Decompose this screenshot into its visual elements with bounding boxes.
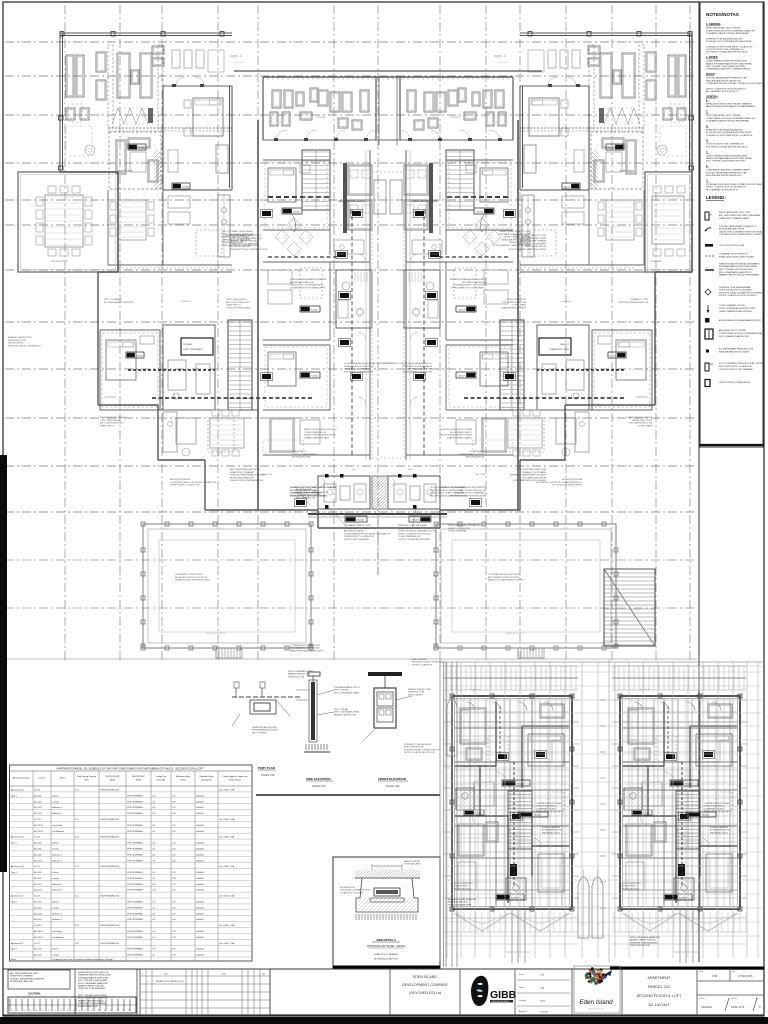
svg-text:Kitchen: Kitchen: [52, 794, 59, 797]
svg-text:SITE PRIOR TO INSTALLATION: SITE PRIOR TO INSTALLATION: [344, 370, 374, 373]
svg-text:SIDE DETAIL 2: SIDE DETAIL 2: [376, 938, 396, 942]
svg-text:date: date: [164, 973, 168, 976]
svg-text:POINT ALL REFRIGERANT PIPEWORK: POINT ALL REFRIGERANT PIPEWORK TO BE: [706, 77, 747, 80]
svg-text:PKFY-P32NHM-E: PKFY-P32NHM-E: [127, 795, 143, 797]
svg-text:Lounge: Lounge: [52, 907, 60, 909]
svg-text:app: app: [262, 974, 265, 976]
svg-text:PIPE TO NEAREST: PIPE TO NEAREST: [104, 298, 123, 301]
svg-text:REFRIGERANT PIPEWORK TO BE: REFRIGERANT PIPEWORK TO BE: [344, 527, 377, 530]
svg-text:AC-26/2: AC-26/2: [34, 906, 42, 909]
svg-text:AIR CONDITIONING UNIT WITH: AIR CONDITIONING UNIT WITH: [230, 468, 260, 471]
left black scan bar: [0, 455, 7, 872]
eden island logo box: [574, 966, 620, 1013]
svg-text:SPLIT TYPE AIR: SPLIT TYPE AIR: [334, 689, 349, 692]
svg-text:Apartment D4: Apartment D4: [11, 895, 24, 898]
svg-text:DRAIN PIPE TO: DRAIN PIPE TO: [292, 450, 307, 453]
svg-text:600x600: 600x600: [196, 937, 205, 939]
svg-text:CD.26: CD.26: [34, 896, 41, 898]
svg-text:BE INSULATED AND RUN IN: BE INSULATED AND RUN IN: [719, 228, 745, 231]
center grid dash vertical tail: [377, 520, 379, 575]
cypress arch shapes: [447, 692, 603, 938]
svg-text:DRAIN PIPE TO NEAREST: DRAIN PIPE TO NEAREST: [230, 471, 255, 474]
svg-text:OUTDOOR UNIT: OUTDOOR UNIT: [105, 776, 120, 778]
svg-text:PROVIDE ACCESS PANELS: PROVIDE ACCESS PANELS: [625, 416, 652, 419]
svg-text:Loft Family: Loft Family: [52, 930, 62, 933]
svg-text:PIPEWORK TO BE INSULATED AND: PIPEWORK TO BE INSULATED AND: [719, 286, 751, 289]
svg-text:600x600: 600x600: [196, 813, 205, 815]
svg-text:SCALE 1:50: SCALE 1:50: [261, 774, 275, 777]
svg-text:DRAIN PIPE TO: DRAIN PIPE TO: [637, 424, 652, 427]
svg-text:Bedroom 1: Bedroom 1: [52, 884, 63, 886]
svg-text:PKFY-P32NHM-E: PKFY-P32NHM-E: [127, 902, 143, 904]
svg-text:1ph / 400V / 13A: 1ph / 400V / 13A: [219, 865, 235, 868]
svg-text:SUPPLY LOCATION OF OUTDOOR: SUPPLY LOCATION OF OUTDOOR: [439, 428, 472, 431]
svg-text:INSULATED AND RUN: INSULATED AND RUN: [448, 901, 468, 904]
svg-text:SUPPLY AND INSTALL: SUPPLY AND INSTALL: [630, 419, 652, 422]
svg-text:WITH ELECTRICAL CONTRACTOR FOR: WITH ELECTRICAL CONTRACTOR FOR: [398, 530, 436, 533]
svg-text:BE INSULATED AND RUN: BE INSULATED AND RUN: [374, 958, 398, 961]
svg-text:SPLIT TYPE AIR CONDITIONING UN: SPLIT TYPE AIR CONDITIONING UNIT WITH: [706, 160, 746, 163]
svg-text:VIBRATION PADS PROVIDE: VIBRATION PADS PROVIDE: [252, 726, 277, 729]
svg-text:Kitchen: Kitchen: [52, 871, 59, 874]
svg-text:ON SITE PRIOR: ON SITE PRIOR: [622, 886, 637, 888]
svg-text:J31146A: J31146A: [701, 1005, 712, 1009]
notes panel divider: [698, 2, 700, 962]
svg-text:WITH CONDENSATE DRAIN PIPE: WITH CONDENSATE DRAIN PIPE: [230, 237, 262, 240]
svg-text:SITE PRIOR TO INSTALLATION MOU: SITE PRIOR TO INSTALLATION MOUNT UNITS: [706, 51, 748, 54]
svg-text:Condensing units to be air coo: Condensing units to be air cooled for am…: [52, 958, 115, 961]
svg-text:OUTDOOR UNITS TO BE CONFIRMED: OUTDOOR UNITS TO BE CONFIRMED: [430, 487, 466, 489]
svg-text:AC-25/3: AC-25/3: [34, 883, 42, 886]
svg-text:NEAREST WASTE POINT ALL: NEAREST WASTE POINT ALL: [517, 240, 546, 243]
svg-text:+0.35 level: +0.35 level: [560, 301, 571, 303]
leader diagonals: [300, 492, 416, 528]
svg-text:Eden Island: Eden Island: [579, 999, 613, 1006]
svg-text:600x600: 600x600: [196, 831, 205, 833]
svg-text:XX-000: XX-000: [517, 784, 525, 786]
details divider line: [256, 794, 440, 796]
table data rows: [10, 788, 253, 957]
left wing half (mirrored for right): [59, 32, 260, 487]
svg-text:AC-24/2: AC-24/2: [34, 847, 42, 850]
svg-text:Power Supply to Outdoor unit: Power Supply to Outdoor unit: [223, 775, 248, 778]
svg-text:OUTDOOR UNIT BASE - DETAIL: OUTDOOR UNIT BASE - DETAIL: [367, 944, 406, 948]
svg-text:XX-000: XX-000: [679, 898, 687, 900]
svg-text:2. NOTES:: 2. NOTES:: [706, 56, 718, 59]
svg-text:AC-25/2: AC-25/2: [34, 877, 42, 880]
table header row: [10, 785, 253, 787]
svg-text:CONTRACTOR FOR POWER SUPPLY LO: CONTRACTOR FOR POWER SUPPLY LOCATION OF: [706, 134, 753, 137]
svg-text:POWER SUPPLY LOCATION OF: POWER SUPPLY LOCATION OF: [344, 535, 375, 538]
svg-text:Lounge: Lounge: [52, 955, 60, 957]
svg-text:AIR CONDITIONING UNIT: AIR CONDITIONING UNIT: [100, 422, 125, 425]
svg-text:PUMY-P.NDMU48.45: PUMY-P.NDMU48.45: [100, 943, 120, 945]
svg-text:Bedroom 1: Bedroom 1: [52, 913, 63, 915]
svg-text:1ph / 400V / 13A: 1ph / 400V / 13A: [219, 942, 235, 945]
svg-text:ON ANTI VIBRATION: ON ANTI VIBRATION: [710, 826, 729, 829]
svg-text:Bedroom 2: Bedroom 2: [52, 890, 63, 892]
center corridor vertical dashed: [372, 172, 404, 458]
svg-text:CONTRACTOR FOR POWER: CONTRACTOR FOR POWER: [704, 802, 730, 805]
svg-text:WITH ELECTRICAL CONTRACTOR: WITH ELECTRICAL CONTRACTOR: [448, 524, 481, 527]
svg-text:POWER SUPPLY LOCATION OF: POWER SUPPLY LOCATION OF: [170, 484, 201, 487]
svg-text:BE INSULATED AND RUN: BE INSULATED AND RUN: [462, 281, 486, 284]
svg-text:BE INSULATED AND RUN: BE INSULATED AND RUN: [290, 281, 314, 284]
svg-text:AC-23/3: AC-23/3: [34, 806, 42, 809]
svg-text:AND RUN IN CEILING: AND RUN IN CEILING: [344, 530, 365, 533]
svg-text:INDOOR UNIT: INDOOR UNIT: [132, 776, 145, 778]
svg-text:FOR POWER SUPPLY LOCATION OF: FOR POWER SUPPLY LOCATION OF: [719, 365, 753, 368]
svg-text:POINT ALL REFRIGERANT PIPEWORK: POINT ALL REFRIGERANT PIPEWORK: [509, 474, 546, 477]
svg-text:CONFIRMED ON SITE PRIOR: CONFIRMED ON SITE PRIOR: [175, 574, 203, 576]
svg-text:600x600: 600x600: [196, 919, 205, 921]
svg-text:XX-000: XX-000: [606, 148, 614, 150]
svg-text:Model: Model: [110, 780, 116, 782]
porch center wall hatch: [372, 476, 388, 509]
svg-text:POWER SUPPLY LOCATION OF: POWER SUPPLY LOCATION OF: [344, 365, 375, 368]
svg-text:XX-000: XX-000: [411, 520, 419, 522]
svg-text:XX-000: XX-000: [293, 212, 301, 214]
table column lines: [33, 771, 218, 961]
svg-text:verandah: verandah: [650, 259, 662, 263]
svg-text:GENERAL:: GENERAL:: [706, 95, 719, 98]
svg-text:600x600: 600x600: [196, 890, 205, 892]
svg-text:600x600: 600x600: [196, 848, 205, 850]
svg-text:COORDINATE WITH ELECTRICAL CON: COORDINATE WITH ELECTRICAL CONTRACTOR: [385, 362, 432, 365]
svg-text:SITE PRIOR TO INSTALLATION: SITE PRIOR TO INSTALLATION: [402, 370, 432, 373]
svg-text:MOUNT UNITS ON: MOUNT UNITS ON: [454, 888, 471, 890]
svg-text:CONSULTING ENGINEERS: CONSULTING ENGINEERS: [491, 1001, 509, 1003]
svg-text:DRAIN PIPE TO: DRAIN PIPE TO: [469, 450, 484, 453]
svg-text:VIBRATION PADS PROVIDE ACCESS: VIBRATION PADS PROVIDE ACCESS: [78, 974, 112, 977]
svg-text:PART PLAN: PART PLAN: [258, 766, 275, 770]
svg-text:OUTDOOR UNITS TO: OUTDOOR UNITS TO: [622, 883, 641, 885]
svg-text:SPLIT TYPE AIR CONDITIONING: SPLIT TYPE AIR CONDITIONING: [78, 979, 107, 982]
svg-text:PADS PROVIDE ACCESS PANELS FOR: PADS PROVIDE ACCESS PANELS FOR MAINTENAN…: [706, 105, 756, 108]
svg-text:ON SITE PRIOR TO INSTALLATION: ON SITE PRIOR TO INSTALLATION: [719, 381, 750, 384]
svg-text:UNITS TO BE CONFIRMED: UNITS TO BE CONFIRMED: [344, 539, 370, 541]
svg-text:WITH CONDENSATE DRAIN PIPE TO: WITH CONDENSATE DRAIN PIPE TO: [719, 271, 752, 274]
svg-text:CD.23: CD.23: [34, 789, 41, 791]
svg-text:Type 4: Type 4: [11, 949, 18, 951]
svg-text:NEAREST WASTE POINT ALL: NEAREST WASTE POINT ALL: [630, 939, 656, 942]
svg-text:600x600: 600x600: [196, 913, 205, 915]
svg-text:FOR MAINTENANCE SUPPLY AND: FOR MAINTENANCE SUPPLY AND: [78, 976, 109, 979]
svg-text:CEILING VOID COORDINATE WITH E: CEILING VOID COORDINATE WITH ELECTRICAL: [719, 230, 762, 233]
svg-text:PKFY-P32NHM-E: PKFY-P32NHM-E: [127, 843, 143, 845]
svg-text:apartment: apartment: [620, 169, 634, 173]
svg-text:POINT ALL REFRIGERANT PIPEWORK: POINT ALL REFRIGERANT PIPEWORK: [10, 977, 45, 980]
svg-text:Type 4: Type 4: [11, 795, 18, 797]
svg-text:AC-23.1/1: AC-23.1/1: [34, 824, 44, 827]
svg-text:PKFY-P32NHM-E: PKFY-P32NHM-E: [127, 854, 143, 856]
svg-text:PIPEWORK TO BE: PIPEWORK TO BE: [288, 676, 305, 678]
svg-text:AC-24/4: AC-24/4: [34, 859, 42, 862]
svg-text:SCALE 1:50: SCALE 1:50: [312, 785, 326, 788]
svg-text:JOB No.: JOB No.: [699, 998, 706, 1000]
svg-text:SUPPLY AND INSTALL: SUPPLY AND INSTALL: [226, 298, 248, 301]
svg-text:COORDINATE WITH ELECTRICAL CON: COORDINATE WITH ELECTRICAL CONTRACTOR FO…: [706, 183, 763, 186]
svg-text:RUN IN CEILING: RUN IN CEILING: [412, 659, 427, 661]
svg-text:rv: rv: [142, 974, 144, 976]
svg-text:1:50: 1:50: [712, 974, 718, 978]
svg-text:BE INSULATED AND RUN: BE INSULATED AND RUN: [10, 980, 33, 983]
svg-text:PIPEWORK TO BE: PIPEWORK TO BE: [8, 340, 26, 342]
svg-text:AND RUN IN CEILING: AND RUN IN CEILING: [561, 478, 582, 481]
svg-text:Cooling Cap.: Cooling Cap.: [156, 776, 167, 778]
svg-text:SPLIT TYPE AIR CONDITIONING: SPLIT TYPE AIR CONDITIONING: [515, 234, 546, 237]
svg-text:MOUNT UNITS ON: MOUNT UNITS ON: [622, 888, 639, 890]
svg-text:ON SITE PRIOR: ON SITE PRIOR: [454, 886, 469, 888]
svg-text:NEAREST WASTE POINT ALL: NEAREST WASTE POINT ALL: [78, 985, 104, 988]
svg-text:XX-000: XX-000: [311, 310, 319, 312]
svg-text:XX-000: XX-000: [138, 148, 146, 150]
svg-text:AC-26/4: AC-26/4: [34, 918, 42, 921]
svg-text:Loft Bedroom: Loft Bedroom: [52, 936, 64, 939]
svg-text:PRIOR TO INSTALLATION MOUNT: PRIOR TO INSTALLATION MOUNT: [398, 538, 431, 541]
svg-text:POINT ALL REFRIGERANT PIPEWORK: POINT ALL REFRIGERANT PIPEWORK TO: [719, 225, 757, 228]
right terrace steps notch: [518, 648, 544, 658]
svg-text:COORDINATE WITH ELECTRICAL CON: COORDINATE WITH ELECTRICAL CONTRACTOR: [170, 481, 217, 484]
bottom black scan bar: [0, 1017, 768, 1024]
loft A right vertical dim ticks: [600, 700, 606, 908]
svg-text:DEVELOPMENT COMPANY: DEVELOPMENT COMPANY: [402, 983, 449, 987]
svg-text:APARTMENTS PARCEL 231: SCHEDUL: APARTMENTS PARCEL 231: SCHEDULE OF SPLIT…: [57, 768, 204, 771]
svg-text:600x600: 600x600: [196, 931, 205, 933]
svg-text:w a t e r f a l l: w a t e r f a l l: [506, 631, 524, 635]
svg-text:PKFY-P32NHM-E: PKFY-P32NHM-E: [127, 825, 143, 827]
svg-text:PRIOR TO INSTALLATION MOUNT: PRIOR TO INSTALLATION MOUNT: [304, 434, 337, 437]
svg-text:Loft Family: Loft Family: [52, 824, 62, 827]
svg-text:CD.24: CD.24: [34, 837, 41, 839]
svg-text:+0.35 bdrm: +0.35 bdrm: [636, 396, 648, 399]
svg-text:PIPE TO NEAREST: PIPE TO NEAREST: [629, 298, 648, 301]
svg-text:CONFIRMED ON SITE PRIOR TO: CONFIRMED ON SITE PRIOR TO: [290, 493, 321, 495]
svg-text:RUN IN CEILING: RUN IN CEILING: [8, 343, 24, 345]
svg-text:TO NEAREST WASTE POINT ALL REF: TO NEAREST WASTE POINT ALL REFRIGERANT: [706, 32, 750, 35]
svg-text:SITE PRIOR TO INSTALLATION MOU: SITE PRIOR TO INSTALLATION MOUNT UNITS: [706, 145, 748, 148]
svg-text:BE INSULATED AND RUN: BE INSULATED AND RUN: [230, 476, 254, 479]
svg-text:ACCESS PANELS FOR: ACCESS PANELS FOR: [710, 829, 731, 832]
svg-text:PIPEWORK TO BE: PIPEWORK TO BE: [408, 692, 425, 694]
svg-text:OF OUTDOOR UNITS TO BE: OF OUTDOOR UNITS TO BE: [459, 490, 486, 492]
svg-text:INSTALLATION MOUNT UNITS ON AN: INSTALLATION MOUNT UNITS ON ANTI: [290, 494, 327, 497]
svg-text:SUPPLY LOCATION OF OUTDOOR: SUPPLY LOCATION OF OUTDOOR: [304, 428, 337, 431]
svg-text:XX-000: XX-000: [311, 376, 319, 378]
svg-text:1ph / 400V / 13A: 1ph / 400V / 13A: [219, 924, 235, 927]
svg-text:Type 5: Type 5: [11, 843, 18, 845]
svg-text:CAUTION:: CAUTION:: [28, 992, 41, 996]
svg-text:(MAIN CANAPE LEVEL): (MAIN CANAPE LEVEL): [338, 200, 366, 203]
svg-text:600x600: 600x600: [196, 825, 205, 827]
svg-text:XX-000: XX-000: [608, 356, 616, 358]
svg-text:FRONT ELEVATION: FRONT ELEVATION: [378, 777, 406, 781]
right dining protrusion: [645, 172, 692, 272]
svg-text:PKFY-P25NHM-E: PKFY-P25NHM-E: [127, 890, 143, 892]
svg-text:PRIOR TO INSTALLATION MOUNT: PRIOR TO INSTALLATION MOUNT: [439, 434, 472, 437]
svg-text:SUPPLY AND INSTALL SPLIT TYPE: SUPPLY AND INSTALL SPLIT TYPE AIR: [706, 27, 741, 30]
svg-text:DRAIN PIPE TO NEAREST: DRAIN PIPE TO NEAREST: [10, 975, 34, 978]
svg-text:WITH ELECTRICAL CONTRACTOR FOR: WITH ELECTRICAL CONTRACTOR FOR: [230, 248, 268, 251]
svg-text:Apartment D5: Apartment D5: [11, 942, 24, 945]
svg-text:XX-000: XX-000: [136, 356, 144, 358]
svg-text:Apartment Number: Apartment Number: [13, 777, 30, 780]
svg-text:PKFY-P40NHM-E: PKFY-P40NHM-E: [127, 801, 143, 803]
svg-text:CONDITIONING UNIT WITH CONDENS: CONDITIONING UNIT WITH CONDENSATE DRAIN: [719, 332, 764, 335]
svg-text:CONTRACTOR FOR POWER SUPPLY LO: CONTRACTOR FOR POWER SUPPLY LOCATION: [290, 486, 336, 489]
svg-text:TYPE AIR: TYPE AIR: [183, 343, 193, 346]
loft grid verticals: [444, 662, 759, 967]
legend items: [705, 212, 714, 387]
svg-text:PUMY-P.NDMU48.45: PUMY-P.NDMU48.45: [100, 789, 120, 791]
apartment title text: [637, 976, 682, 1007]
svg-text:POWER SUPPLY LOCATION OF: POWER SUPPLY LOCATION OF: [551, 484, 582, 487]
svg-text:Drawn: Drawn: [519, 987, 524, 989]
svg-text:AC-25/4: AC-25/4: [34, 889, 42, 892]
svg-text:WITH CONDENSATE DRAIN PIPE: WITH CONDENSATE DRAIN PIPE: [630, 936, 660, 939]
svg-text:CJH: CJH: [540, 988, 545, 990]
svg-text:600x600: 600x600: [196, 795, 205, 797]
svg-text:AIR CONDITIONING UNIT: AIR CONDITIONING UNIT: [226, 301, 251, 304]
svg-text:OF OUTDOOR UNITS: OF OUTDOOR UNITS: [704, 806, 724, 808]
svg-text:RUN IN CEILING VOID: RUN IN CEILING VOID: [78, 1006, 98, 1008]
svg-text:Model: Model: [136, 780, 142, 782]
svg-text:CONDITIONING UNIT WITH CONDENS: CONDITIONING UNIT WITH CONDENSATE DRAIN …: [706, 29, 756, 32]
title block bottom border: [3, 1014, 764, 1016]
svg-text:WITH CONDENSATE DRAIN: WITH CONDENSATE DRAIN: [288, 670, 313, 673]
svg-text:XX-000: XX-000: [511, 898, 519, 900]
svg-text:Total Cooling Capacity: Total Cooling Capacity: [77, 775, 96, 778]
svg-text:PIPEWORK TO BE INSULATED AND R: PIPEWORK TO BE INSULATED AND RUN: [706, 37, 743, 40]
svg-text:WITH ELECTRICAL CONTRACTOR: WITH ELECTRICAL CONTRACTOR: [8, 344, 41, 347]
svg-text:sundeck: sundeck: [316, 115, 326, 119]
svg-text:CONTRACTOR FOR POWER SUPPLY LO: CONTRACTOR FOR POWER SUPPLY LOCATION OF: [706, 45, 753, 48]
svg-text:I n v e r t: I n v e r t: [498, 60, 508, 64]
right wing (mirror of left): [492, 32, 693, 487]
eden island dev company text: [402, 975, 449, 995]
svg-text:600x600: 600x600: [196, 807, 205, 809]
loft grid horizontals: [443, 672, 762, 936]
svg-text:ON ANTI VIBRATION PADS PROVIDE: ON ANTI VIBRATION PADS PROVIDE ACCESS: [706, 154, 748, 157]
svg-text:PARCEL 231: PARCEL 231: [648, 985, 670, 989]
svg-text:INSULATED AND RUN IN CEILING: INSULATED AND RUN IN CEILING: [719, 350, 750, 353]
svg-text:7.: 7.: [706, 179, 708, 182]
svg-text:scale: scale: [699, 971, 703, 973]
svg-text:AC-27/1: AC-27/1: [34, 948, 42, 951]
svg-text:TO BE CONFIRMED ON SITE: TO BE CONFIRMED ON SITE: [719, 305, 745, 307]
svg-text:AC-26.1/2: AC-26.1/2: [34, 936, 44, 939]
svg-text:WITH CONDENSATE DRAIN: WITH CONDENSATE DRAIN: [334, 691, 359, 694]
svg-text:CEILING VOID COORDINATE WITH: CEILING VOID COORDINATE WITH: [290, 284, 323, 287]
title block verticals: [75, 969, 697, 1015]
svg-text:LOCATION OF OUTDOOR: LOCATION OF OUTDOOR: [340, 891, 363, 894]
svg-text:INSTALLATION MOUNT UNITS ON: INSTALLATION MOUNT UNITS ON: [78, 971, 109, 974]
svg-text:PIPEWORK TO BE INSULATED: PIPEWORK TO BE INSULATED: [230, 242, 259, 245]
svg-text:COORDINATE WITH ELECTRICAL CON: COORDINATE WITH ELECTRICAL CONTRACTOR: [344, 532, 391, 535]
svg-text:PKFY-P25NHM-E: PKFY-P25NHM-E: [127, 813, 143, 815]
svg-text:AC-26/1: AC-26/1: [34, 901, 42, 904]
svg-text:600x600: 600x600: [196, 907, 205, 909]
svg-text:Maximum airflow: Maximum airflow: [176, 775, 191, 778]
svg-text:CONTRACTOR FOR POWER SUPPLY LO: CONTRACTOR FOR POWER SUPPLY LOCATION: [719, 233, 763, 236]
svg-text:FOR MAINTENANCE SUPPLY: FOR MAINTENANCE SUPPLY: [252, 729, 279, 732]
svg-text:Apartments D1: Apartments D1: [11, 788, 25, 791]
svg-text:CD.23.1: CD.23.1: [34, 819, 42, 821]
svg-text:PKFY-P32NHM-E: PKFY-P32NHM-E: [127, 884, 143, 886]
svg-text:Kitchen: Kitchen: [52, 842, 59, 845]
svg-text:Apartments D2: Apartments D2: [11, 836, 25, 839]
svg-text:PRIOR TO INSTALLATION MOUNT UN: PRIOR TO INSTALLATION MOUNT UNITS: [719, 307, 756, 310]
svg-text:Bedroom 1: Bedroom 1: [52, 807, 63, 809]
svg-text:AC LAYOUT: AC LAYOUT: [648, 1003, 670, 1007]
legend item texts: [719, 211, 768, 384]
svg-text:600x600: 600x600: [196, 872, 205, 874]
svg-text:SUPPLY LOCATION OF OUTDOOR: SUPPLY LOCATION OF OUTDOOR: [404, 751, 435, 754]
svg-text:SPLIT TYPE AIR CONDITIONING: SPLIT TYPE AIR CONDITIONING: [222, 230, 253, 233]
svg-text:TO BE CONFIRMED ON: TO BE CONFIRMED ON: [398, 536, 421, 538]
svg-text:ACCESS PANELS FOR MAINTENANCE: ACCESS PANELS FOR MAINTENANCE SUPPLY: [719, 319, 762, 322]
svg-text:CEILING VOID COORDINATE WITH: CEILING VOID COORDINATE WITH: [453, 284, 486, 287]
svg-text:SUPPLY LOCATION OF OUTDOOR UNI: SUPPLY LOCATION OF OUTDOOR UNITS TO: [706, 186, 746, 189]
svg-text:- CD.33.-CD.43.: - CD.33.-CD.43.: [50, 260, 68, 263]
svg-text:Bedroom 1: Bedroom 1: [52, 854, 63, 856]
svg-text:WITH ELECTRICAL CONTRACTOR FOR: WITH ELECTRICAL CONTRACTOR FOR POWER: [719, 291, 763, 294]
svg-text:IN CEILING VOID COORDINATE WIT: IN CEILING VOID COORDINATE WITH ELECTRIC…: [706, 40, 752, 43]
svg-text:OF OUTDOOR UNITS TO BE: OF OUTDOOR UNITS TO BE: [719, 245, 745, 247]
svg-text:PIPEWORK TO BE INSULATED: PIPEWORK TO BE INSULATED: [630, 941, 658, 944]
svg-text:VIBRATION PADS PROVIDE ACCESS: VIBRATION PADS PROVIDE ACCESS: [175, 579, 210, 582]
svg-text:PUMY-P.NDMU48.45: PUMY-P.NDMU48.45: [100, 819, 120, 821]
svg-text:Room: Room: [60, 778, 66, 780]
svg-text:SUPPLY AND INSTALL: SUPPLY AND INSTALL: [100, 419, 122, 422]
svg-text:PIPEWORK TO BE INSULATED: PIPEWORK TO BE INSULATED: [78, 987, 106, 990]
svg-text:ON ANTI VIBRATION PADS PROVIDE: ON ANTI VIBRATION PADS PROVIDE: [719, 310, 752, 313]
svg-text:d i m l o f t: d i m l o f t: [470, 688, 480, 691]
svg-text:(CFs): (CFs): [181, 780, 186, 782]
svg-text:(SEYCHELLES) Ltd: (SEYCHELLES) Ltd: [409, 991, 441, 995]
svg-text:SECOND FLOOR & LOFT: SECOND FLOOR & LOFT: [637, 994, 682, 998]
svg-text:PUMY-P.NDMU48.45: PUMY-P.NDMU48.45: [100, 866, 120, 868]
svg-text:SPLIT TYPE AIR CONDITIONING UN: SPLIT TYPE AIR CONDITIONING UNIT: [719, 268, 753, 271]
svg-text:DRAIN PIPE TO: DRAIN PIPE TO: [226, 304, 241, 307]
svg-text:CONTRACTOR FOR POWER SUPPLY: CONTRACTOR FOR POWER SUPPLY: [450, 286, 486, 289]
svg-text:NEAREST WASTE POINT: NEAREST WASTE POINT: [408, 688, 431, 691]
svg-text:PKFY-P25NHM-E: PKFY-P25NHM-E: [127, 860, 143, 862]
svg-text:LEGEND:: LEGEND:: [706, 195, 726, 200]
svg-text:WASTE POINT ALL: WASTE POINT ALL: [404, 860, 421, 863]
svg-text:SUPPLY AND INSTALL: SUPPLY AND INSTALL: [504, 298, 526, 301]
svg-text:CD.26.1: CD.26.1: [34, 925, 42, 927]
svg-text:SUPPLY AND INSTALL SPLIT TYPE: SUPPLY AND INSTALL SPLIT TYPE AIR: [706, 114, 741, 117]
center gap walkway: [0, 0, 1, 1]
right wing perimeter lower: [518, 33, 692, 510]
center block right half mirror: [385, 71, 624, 522]
center block half (mirrored): [152, 71, 391, 522]
svg-text:TO BE CONFIRMED ON: TO BE CONFIRMED ON: [449, 432, 472, 434]
svg-text:PKFY-P40NHM-E: PKFY-P40NHM-E: [127, 848, 143, 850]
svg-text:OF OUTDOOR UNITS TO BE: OF OUTDOOR UNITS TO BE: [290, 490, 317, 492]
svg-text:RUN IN CEILING VOID COORDINATE: RUN IN CEILING VOID COORDINATE: [719, 289, 752, 292]
svg-text:NEAREST WASTE POINT ALL REFRIG: NEAREST WASTE POINT ALL REFRIGERANT: [719, 274, 760, 277]
svg-text:WITH ELECTRICAL CONTRACTOR FOR: WITH ELECTRICAL CONTRACTOR FOR: [404, 748, 440, 751]
svg-text:INSULATED AND RUN IN CEILING V: INSULATED AND RUN IN CEILING VOID: [706, 79, 742, 82]
svg-text:AC-23/2: AC-23/2: [34, 800, 42, 803]
svg-text:BE CONFIRMED ON SITE PRIOR TO: BE CONFIRMED ON SITE PRIOR TO: [706, 189, 739, 191]
svg-text:CONDENSATE DRAIN PIPE TO NEARE: CONDENSATE DRAIN PIPE TO NEAREST WASTE: [706, 68, 751, 71]
svg-text:Bedroom 2: Bedroom 2: [52, 813, 63, 815]
svg-text:NEAREST WASTE POINT ALL: NEAREST WASTE POINT ALL: [78, 999, 104, 1002]
svg-text:PIPEWORK TO BE INSULATED: PIPEWORK TO BE INSULATED: [78, 1002, 106, 1005]
